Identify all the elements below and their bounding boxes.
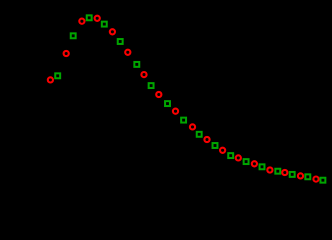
data point: green square marker 3: [87, 15, 92, 20]
data point: green square marker 7: [149, 83, 154, 88]
data point: red circle marker 11: [204, 137, 209, 142]
data point: red circle marker 2: [64, 51, 69, 56]
data point: green square marker 5: [118, 39, 123, 44]
data point: green square marker 9: [181, 118, 186, 123]
data point: red circle marker 9: [173, 109, 178, 114]
data point: green square marker 8: [165, 101, 170, 106]
data point: red circle marker 14: [252, 161, 257, 166]
data point: red circle marker 18: [313, 177, 318, 182]
data point: green square marker 4: [102, 22, 107, 27]
data point: green square marker 10: [197, 132, 202, 137]
data point: red circle marker 5: [110, 29, 115, 34]
data point: green square marker 16: [290, 172, 295, 177]
data point: red circle marker 16: [282, 170, 287, 175]
data point: green square marker 2: [71, 33, 76, 38]
data point: red circle marker 10: [190, 124, 195, 129]
data point: red circle marker 8: [156, 92, 161, 97]
data point: green square marker 17: [305, 174, 310, 179]
data point: red circle marker 17: [298, 173, 303, 178]
data point: red circle marker 1: [48, 77, 53, 82]
data point: green square marker 1: [55, 73, 60, 78]
data point: red circle marker 7: [141, 72, 146, 77]
data point: red circle marker 13: [236, 155, 241, 160]
data point: green square marker 13: [244, 159, 249, 164]
data point: green square marker 14: [260, 164, 265, 169]
data point: red circle marker 6: [125, 50, 130, 55]
data point: green square marker 15: [275, 169, 280, 174]
data point: red circle marker 12: [220, 148, 225, 153]
data point: green square marker 18: [320, 178, 325, 183]
data point: red circle marker 15: [267, 167, 272, 172]
data point: green square marker 12: [228, 153, 233, 158]
data point: green square marker 6: [134, 62, 139, 67]
data point: green square marker 11: [213, 143, 218, 148]
data point: red circle marker 3: [79, 19, 84, 24]
data point: red circle marker 4: [95, 16, 100, 21]
